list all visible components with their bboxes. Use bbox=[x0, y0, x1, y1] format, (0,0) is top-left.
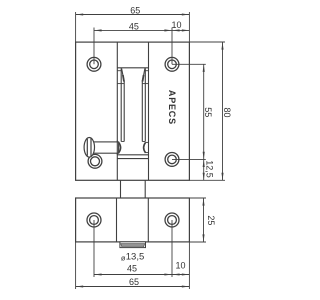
bolt channel right wall bbox=[148, 42, 150, 180]
arrow 65-bot right bbox=[182, 285, 190, 287]
screw hole mid-right bbox=[165, 153, 179, 167]
slider step line bbox=[117, 154, 148, 156]
keeper channel left wall bbox=[116, 198, 118, 242]
ext: plate left edge up bbox=[75, 12, 77, 42]
arrow 80 up bbox=[221, 42, 223, 50]
arrow 12,5 up bbox=[203, 159, 205, 167]
svg-text:10: 10 bbox=[175, 260, 185, 270]
dim line 65 top bbox=[76, 14, 190, 16]
top plate body bbox=[76, 42, 190, 180]
bottom plate body bbox=[76, 198, 190, 242]
svg-text:65: 65 bbox=[130, 5, 140, 15]
arrow 65-top left bbox=[76, 13, 84, 15]
ext: hole 93.8 up bbox=[93, 28, 95, 65]
arrow 10-bot right bbox=[182, 273, 190, 275]
bolt tip socket below bottom plate bbox=[120, 242, 146, 248]
ext: bplate top edge right bbox=[189, 197, 206, 199]
arrow 45-top right bbox=[164, 29, 172, 31]
ext: hole 64.3 right bbox=[172, 63, 206, 65]
ext: plate left edge down bbox=[75, 242, 77, 289]
svg-text:25: 25 bbox=[206, 215, 216, 225]
screw hole bottom-plate-left bbox=[87, 213, 101, 227]
screw hole top-right bbox=[165, 57, 179, 71]
keeper channel right wall bbox=[147, 198, 149, 242]
left rail foot bbox=[121, 141, 124, 143]
svg-text:45: 45 bbox=[127, 264, 137, 274]
ext: bhole 172 down bbox=[171, 220, 173, 277]
ext: hole 172 up bbox=[171, 28, 173, 65]
arrow 45-top left bbox=[94, 29, 102, 31]
svg-text:45: 45 bbox=[129, 21, 139, 31]
handle shaft bbox=[93, 142, 119, 153]
dim line 45/10 bottom bbox=[94, 274, 189, 276]
bolt rod between plates bbox=[120, 180, 122, 198]
right guide rail bbox=[144, 68, 146, 141]
channel slot top edge bbox=[117, 67, 148, 69]
svg-text:13,5: 13,5 bbox=[126, 251, 145, 262]
screw hole bottom-plate-right bbox=[165, 213, 179, 227]
arrow 10-top right bbox=[182, 29, 190, 31]
screw hole top-left bbox=[87, 57, 101, 71]
knob cap bbox=[84, 138, 94, 158]
dim line 55 / 12.5 bbox=[203, 64, 205, 180]
ext: plate bottom edge right bbox=[189, 179, 225, 181]
svg-text:10: 10 bbox=[171, 20, 181, 30]
svg-text:80: 80 bbox=[222, 107, 232, 117]
arrow 45-bot right bbox=[164, 273, 172, 275]
dim line 80 bbox=[222, 42, 224, 180]
screw hole mid-left (behind knob) bbox=[88, 154, 102, 168]
ext: bhole 94 down bbox=[93, 220, 95, 277]
ext: plate right edge up bbox=[188, 12, 190, 42]
arrow 65-top right bbox=[182, 13, 190, 15]
ext: bplate bottom edge right bbox=[189, 241, 206, 243]
channel wall over shaft bbox=[116, 141, 118, 155]
arrow 80 down bbox=[221, 173, 223, 181]
right rail foot bbox=[142, 141, 145, 143]
arrow 45-bot left bbox=[94, 273, 102, 275]
svg-text:APECS: APECS bbox=[167, 90, 177, 125]
bolt channel left wall bbox=[116, 42, 118, 180]
svg-text:12,5: 12,5 bbox=[204, 160, 214, 178]
arrow 12,5 down bbox=[203, 173, 205, 181]
dimension lines bbox=[76, 12, 225, 289]
arrow 55 up bbox=[203, 64, 205, 72]
arrow 10-bot left bbox=[172, 273, 180, 275]
arrow 10-top left bbox=[172, 29, 180, 31]
arrow 25 up bbox=[202, 198, 204, 206]
svg-text:55: 55 bbox=[203, 107, 213, 117]
slider block top bbox=[117, 158, 148, 160]
svg-text:ø: ø bbox=[121, 253, 126, 262]
dimension texts bbox=[121, 5, 232, 287]
arrow 65-bot left bbox=[76, 285, 84, 287]
dim line 25 bbox=[203, 198, 205, 242]
dim line 65 bottom bbox=[76, 286, 190, 288]
ext: top edge right bbox=[189, 41, 225, 43]
arrowheads bbox=[76, 13, 224, 287]
ext: plate right edge down bbox=[188, 242, 190, 289]
left guide rail bbox=[120, 68, 122, 141]
arrow 55 down bbox=[203, 152, 205, 160]
ext: hole 159.4 right bbox=[172, 158, 206, 160]
arrow 25 down bbox=[202, 234, 204, 242]
svg-text:65: 65 bbox=[129, 277, 139, 287]
dim line 45/10 top bbox=[94, 29, 189, 31]
